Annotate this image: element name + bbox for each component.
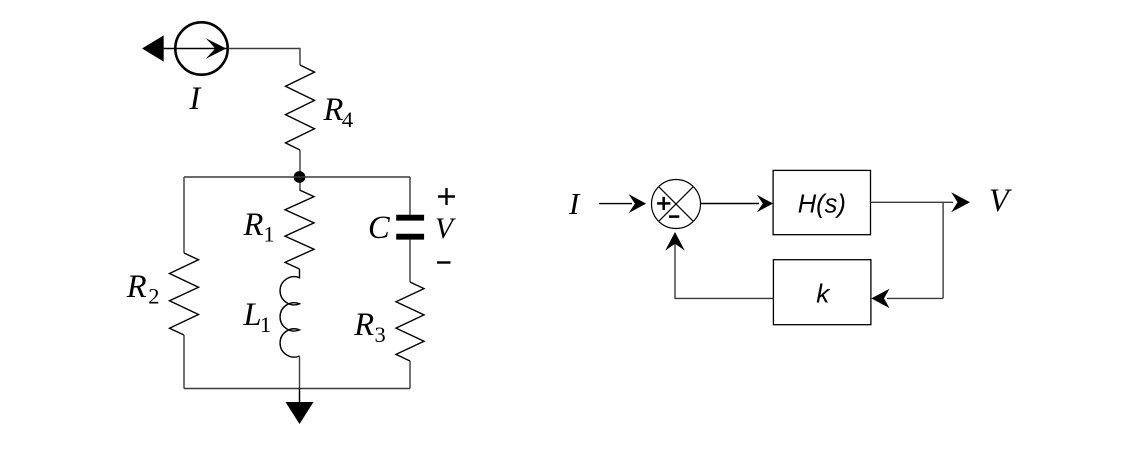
svg-text:L: L: [243, 297, 262, 333]
resistor R4: [286, 65, 315, 150]
svg-text:2: 2: [148, 284, 159, 309]
svg-text:R: R: [243, 207, 264, 243]
svg-text:I: I: [568, 186, 581, 221]
svg-text:R: R: [323, 92, 344, 128]
wire: left branch upper: [183, 177, 185, 253]
svg-text:C: C: [368, 210, 390, 246]
capacitor C: [396, 218, 424, 237]
block H(s): [773, 170, 870, 234]
svg-text:R: R: [126, 269, 147, 305]
wire: left branch lower: [183, 335, 185, 389]
svg-text:1: 1: [260, 312, 271, 337]
resistor R2: [170, 253, 199, 335]
node: top junction: [294, 171, 306, 183]
wire: bottom rail: [184, 388, 410, 390]
svg-text:I: I: [189, 81, 203, 117]
arrow: I to summing junction: [599, 194, 646, 213]
label − (summing junction): [669, 215, 679, 218]
resistor R3: [396, 282, 424, 361]
wire: capacitor to R3: [409, 240, 411, 282]
wire: k output to summing junction: [675, 242, 773, 298]
wire: feedback tap down: [942, 202, 944, 298]
svg-text:4: 4: [342, 107, 353, 132]
arrowhead: output V: [951, 192, 970, 212]
wire: top rail to capacitor: [409, 177, 411, 215]
svg-text:3: 3: [375, 322, 386, 347]
arrowhead: feedback up into summing junction: [665, 232, 684, 251]
wire: current source to R4: [228, 49, 300, 66]
svg-text:k: k: [816, 279, 831, 309]
wire: L1 to bottom rail: [299, 356, 301, 389]
svg-text:V: V: [435, 213, 456, 245]
wire: H(s) output to V: [871, 201, 954, 203]
inductor L1: [280, 269, 299, 357]
label + (voltage polarity): [438, 188, 455, 205]
block k: [773, 260, 871, 325]
wire: R4 to node: [299, 150, 301, 190]
resistor R1: [285, 190, 314, 269]
arrow: summing junction to H(s): [701, 195, 774, 212]
label − (voltage polarity): [437, 261, 451, 263]
svg-text:H(s): H(s): [798, 191, 846, 219]
wire: top rail: [184, 176, 410, 178]
svg-text:R: R: [353, 307, 374, 343]
svg-text:V: V: [989, 183, 1012, 219]
ground: [286, 389, 314, 425]
svg-text:1: 1: [263, 221, 274, 246]
wire: R3 to bottom rail: [409, 361, 411, 389]
summing junction: [652, 180, 701, 229]
arrow: feedback into k: [871, 289, 943, 308]
label + (summing junction): [657, 197, 670, 210]
current source I: [142, 22, 228, 74]
